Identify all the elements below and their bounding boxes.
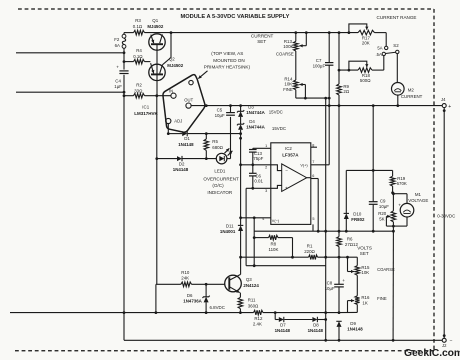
wire R15-R16 link	[356, 275, 358, 296]
wire R19 to M1	[393, 193, 407, 195]
wire left bus	[123, 48, 125, 69]
wire R20 bottom	[392, 222, 394, 231]
wire R2 row	[124, 95, 134, 97]
svg-text:LM317HVK: LM317HVK	[134, 111, 158, 116]
resistor R9	[337, 84, 342, 95]
svg-text:−: −	[285, 168, 288, 173]
svg-text:670K: 670K	[397, 181, 407, 186]
junction R20 top	[392, 192, 395, 195]
fuse F2	[122, 34, 126, 38]
svg-text:C8: C8	[327, 281, 333, 286]
junction	[392, 339, 395, 342]
svg-text:GeekIC.com: GeekIC.com	[404, 348, 460, 359]
junction	[372, 169, 375, 172]
svg-text:680Ω: 680Ω	[212, 145, 223, 150]
resistor R19	[390, 176, 395, 186]
wire R15 wiper drop	[347, 257, 349, 271]
svg-text:10μF: 10μF	[325, 286, 335, 291]
svg-text:1K: 1K	[362, 300, 367, 305]
zener D4	[238, 124, 243, 130]
capacitor C8	[334, 283, 344, 285]
transistor Q2	[149, 64, 165, 80]
junction R5 top	[205, 132, 208, 135]
svg-text:15VDC: 15VDC	[272, 126, 286, 131]
junction D6 top	[205, 283, 208, 286]
svg-text:20K: 20K	[362, 41, 370, 46]
svg-text:.5A: .5A	[376, 52, 382, 57]
junction R17 bracket	[348, 31, 351, 34]
wire pin7 V+ row	[311, 164, 329, 166]
wire current-set row	[296, 97, 329, 99]
junction base bus	[155, 94, 158, 97]
svg-text:360Ω: 360Ω	[248, 303, 259, 308]
wire R16 wiper drop	[347, 301, 349, 313]
wire bottom return bus	[10, 312, 254, 314]
wire R13 top	[295, 33, 297, 42]
wire R8 row	[254, 237, 268, 239]
junction on output bus	[328, 104, 331, 107]
IC1 pin OUT	[186, 103, 191, 108]
resistor R5	[204, 139, 209, 150]
svg-text:R11: R11	[248, 297, 256, 302]
resistor R1	[309, 255, 318, 260]
svg-text:1N4148: 1N4148	[308, 328, 324, 333]
svg-text:Q2: Q2	[169, 57, 175, 62]
wire top rail right end	[375, 32, 387, 34]
wire D1 row	[168, 133, 182, 135]
meter M2	[392, 83, 405, 96]
wire D7 branch drop	[274, 313, 276, 320]
wire reference bus	[240, 106, 242, 112]
junction pin6	[317, 230, 320, 233]
svg-text:−: −	[450, 338, 453, 344]
svg-text:LF357A: LF357A	[282, 152, 299, 157]
svg-text:IC1: IC1	[142, 105, 149, 110]
svg-text:0-30VDC: 0-30VDC	[437, 214, 455, 219]
wire base bus long vertical	[156, 159, 158, 285]
wire D6	[205, 284, 207, 297]
junction R6 top	[338, 230, 341, 233]
wire R15 top	[356, 257, 358, 265]
diode D7	[279, 317, 284, 322]
svg-text:500Ω: 500Ω	[360, 78, 371, 83]
svg-text:2.4K: 2.4K	[253, 322, 262, 327]
svg-text:R1: R1	[307, 243, 313, 248]
wire R1 row	[241, 256, 309, 258]
junction	[205, 311, 208, 314]
potentiometer R13	[294, 41, 299, 51]
resistor R10	[181, 282, 192, 287]
svg-text:OUT: OUT	[184, 98, 193, 103]
R13 wiper arrow	[299, 45, 306, 47]
R20 wiper arrow	[386, 215, 390, 217]
svg-text:INDICATOR: INDICATOR	[207, 190, 233, 195]
wire pin6 drop	[317, 179, 319, 232]
capacitor C6	[249, 172, 257, 174]
svg-text:6A: 6A	[115, 43, 120, 48]
junction	[338, 339, 341, 342]
svg-text:C4: C4	[115, 79, 121, 84]
op-amp inner input jogs	[271, 165, 282, 171]
svg-text:OVERCURRENT: OVERCURRENT	[203, 177, 239, 182]
svg-text:M2: M2	[408, 87, 415, 92]
wire R20 wiper bracket	[385, 216, 387, 226]
svg-text:15VDC: 15VDC	[269, 109, 283, 114]
svg-text:1N4148: 1N4148	[275, 328, 291, 333]
junction C7 top	[328, 31, 331, 34]
wire top rail	[124, 32, 134, 34]
junction pin2 row	[239, 163, 242, 166]
diode D8	[312, 317, 317, 322]
wire R9 column	[338, 33, 340, 84]
svg-text:CURRENT: CURRENT	[401, 94, 423, 99]
svg-text:10μF: 10μF	[379, 204, 389, 209]
junction rail to Q2 collector	[170, 31, 173, 34]
wire C8 bottom	[338, 287, 340, 313]
wire R18 wiper bracket	[349, 61, 367, 70]
svg-text:0.01: 0.01	[254, 179, 263, 184]
junction R8 row	[253, 236, 256, 239]
wire R19 top	[392, 170, 394, 176]
module dashed border bottom	[15, 350, 434, 352]
junction	[123, 94, 126, 97]
wire D10 column	[345, 170, 347, 213]
resistor R2	[134, 93, 145, 98]
svg-text:100μF: 100μF	[313, 64, 326, 69]
junction mega vertical	[324, 230, 327, 233]
junction	[251, 187, 254, 190]
wire ground rail	[124, 339, 442, 341]
svg-text:MJ4502: MJ4502	[167, 63, 183, 68]
wire pin4 drop	[253, 218, 255, 238]
wire input+ from left edge	[16, 52, 123, 54]
junction	[123, 51, 126, 54]
wire pin3 row	[246, 187, 271, 189]
svg-text:FR802: FR802	[351, 217, 365, 222]
wire R6 top	[338, 231, 340, 236]
wire left bus top	[123, 33, 125, 35]
junction	[123, 311, 126, 314]
wire pin8 stub	[311, 146, 317, 148]
junction on reference bus	[239, 132, 242, 135]
wire ADJ down	[167, 124, 169, 134]
svg-text:CURRENT RANGE: CURRENT RANGE	[377, 15, 417, 20]
wire base bus down to D2 row	[156, 96, 158, 159]
wire C9 column	[372, 106, 374, 202]
svg-text:Q1: Q1	[152, 18, 158, 23]
regulator IC1 LM317HVK TO-3 outline	[163, 75, 205, 133]
capacitor C4	[119, 70, 128, 72]
junction below J4	[443, 109, 446, 112]
svg-text:+: +	[342, 278, 345, 283]
wire R16 bottom	[356, 305, 358, 313]
svg-text:+: +	[448, 104, 451, 110]
potentiometer R14	[294, 80, 299, 90]
wire long vertical current-set to ground	[325, 98, 327, 340]
module dashed border right	[433, 9, 435, 351]
resistor R3	[134, 30, 145, 35]
junction	[324, 256, 327, 259]
transistor Q1	[149, 34, 165, 50]
wire J4 to J2 right edge	[443, 108, 445, 339]
junction C7 column	[328, 97, 331, 100]
wire output bus	[191, 105, 442, 107]
svg-text:5: 5	[312, 217, 314, 221]
svg-text:6.8VDC: 6.8VDC	[210, 305, 225, 310]
R16 wiper arrow	[348, 300, 355, 302]
junction D10 bottom	[345, 230, 348, 233]
capacitor C13	[249, 149, 257, 151]
junction	[338, 256, 341, 259]
svg-text:24K: 24K	[181, 276, 189, 281]
wire input- from left edge	[16, 91, 123, 93]
svg-text:MODULE A 5-30VDC VARIABLE SUPP: MODULE A 5-30VDC VARIABLE SUPPLY	[181, 14, 290, 20]
svg-text:C5: C5	[217, 108, 223, 113]
junction R13 wiper	[305, 31, 308, 34]
wire pin2 row	[241, 164, 271, 166]
connector J4	[442, 104, 446, 108]
junction	[338, 311, 341, 314]
junction	[324, 339, 327, 342]
resistor R4	[134, 59, 145, 64]
junction	[324, 311, 327, 314]
wire V+ riser	[328, 106, 330, 165]
junction R15 wiper	[346, 256, 349, 259]
junction D7 branch	[274, 311, 277, 314]
op-amp IC2 LF357A box	[271, 143, 311, 225]
svg-text:1N4744A: 1N4744A	[246, 110, 265, 115]
svg-text:220Ω: 220Ω	[304, 249, 315, 254]
wire bus under op-amp	[254, 230, 393, 232]
svg-text:110K: 110K	[269, 247, 279, 252]
wire S2 pole to M2	[396, 54, 398, 83]
wire C5 bottom riser	[230, 117, 232, 159]
wire pin4 column to loop	[253, 238, 255, 266]
svg-text:0.1Ω: 0.1Ω	[133, 54, 143, 59]
junction	[239, 311, 242, 314]
svg-text:D6: D6	[187, 293, 193, 298]
wire R20 column to ground rail	[392, 231, 394, 340]
connector J2	[442, 338, 446, 342]
junction R13 top	[294, 31, 297, 34]
junction	[155, 311, 158, 314]
junction on output bus	[229, 104, 232, 107]
potentiometer R15	[355, 266, 360, 276]
wire top rail middle	[145, 32, 359, 34]
junction	[291, 256, 294, 259]
junction R5 bottom	[205, 157, 208, 160]
svg-text:1N4001: 1N4001	[220, 229, 236, 234]
svg-text:R8: R8	[271, 241, 277, 246]
svg-text:1μF: 1μF	[114, 84, 122, 89]
svg-text:COARSE: COARSE	[377, 267, 395, 272]
wire to bottom bus	[155, 284, 157, 312]
svg-text:2N4124: 2N4124	[243, 283, 259, 288]
wire R13-R14 link	[295, 51, 297, 80]
wire S2 .5A to R18 row	[383, 56, 385, 71]
svg-text:D8: D8	[313, 322, 319, 327]
svg-text:75pF: 75pF	[253, 156, 263, 161]
svg-text:F2: F2	[114, 37, 120, 42]
svg-text:1N4148: 1N4148	[178, 142, 194, 147]
capacitor C5	[230, 106, 232, 113]
svg-text:MJ4502: MJ4502	[147, 24, 163, 29]
svg-text:MOUNTED ON: MOUNTED ON	[213, 58, 244, 63]
svg-text:D2: D2	[179, 161, 185, 166]
IC1 pin ADJ	[166, 118, 171, 123]
svg-text:V(−): V(−)	[272, 219, 280, 223]
svg-text:6: 6	[312, 174, 314, 178]
potentiometer R20	[391, 211, 396, 222]
svg-text:M1: M1	[415, 192, 422, 197]
svg-text:PRIMARY HEATSINK): PRIMARY HEATSINK)	[204, 64, 251, 69]
resistor R11	[238, 297, 243, 308]
junction on output bus	[396, 104, 399, 107]
svg-text:IC2: IC2	[285, 146, 292, 151]
junction above J2	[443, 334, 446, 337]
svg-text:R3: R3	[135, 18, 141, 23]
svg-text:Q3: Q3	[246, 277, 252, 282]
svg-text:2: 2	[265, 166, 267, 170]
junction on output bus	[205, 104, 208, 107]
junction on output bus	[239, 104, 242, 107]
diode D1	[182, 131, 187, 136]
junction	[391, 191, 394, 194]
wire pin3 down to loop	[245, 188, 247, 265]
diode D9	[337, 321, 342, 327]
wire R8 drop to R1 row	[292, 238, 294, 258]
wire D2 row	[157, 158, 177, 160]
svg-text:SET: SET	[257, 39, 266, 44]
wire R17 wiper bracket	[349, 24, 367, 33]
junction R1 row	[239, 256, 242, 259]
junction C13/C6	[251, 163, 254, 166]
junction C9 bottom	[372, 230, 375, 233]
svg-text:100K: 100K	[283, 44, 293, 49]
wire R9 column continues to lower bus	[338, 106, 340, 232]
wire M2 to output bus	[397, 95, 399, 106]
svg-text:R12: R12	[254, 316, 263, 321]
wire pin1 stub	[253, 147, 271, 149]
transistor Q3 2N4124	[225, 275, 242, 292]
wire C7	[328, 33, 330, 63]
wire pin5 stub	[312, 224, 314, 231]
svg-text:C9: C9	[380, 198, 386, 203]
wire R20 top link	[392, 194, 394, 211]
svg-text:R6: R6	[347, 237, 353, 242]
wire pin6 output	[311, 178, 318, 180]
svg-text:1: 1	[265, 144, 267, 148]
potentiometer R18	[358, 68, 372, 73]
junction R18 row	[338, 69, 341, 72]
meter M1	[400, 203, 414, 217]
svg-text:D4: D4	[249, 119, 255, 124]
junction	[123, 60, 126, 63]
svg-text:IN: IN	[169, 88, 173, 93]
svg-text:+: +	[398, 203, 401, 208]
svg-text:R16: R16	[361, 295, 370, 300]
svg-text:0.1Ω: 0.1Ω	[133, 24, 143, 29]
resistor R6	[337, 237, 342, 247]
svg-text:33Ω: 33Ω	[134, 88, 143, 93]
svg-text:FINE: FINE	[377, 296, 387, 301]
wire R19 feed row	[346, 169, 392, 171]
wire Q2 collector to riser	[162, 58, 171, 65]
resistor R8	[269, 235, 279, 240]
zener D6	[204, 297, 209, 303]
svg-text:D9: D9	[350, 321, 356, 326]
svg-text:10K: 10K	[361, 270, 369, 275]
svg-text:R10: R10	[181, 270, 190, 275]
R14 wiper arrow	[299, 84, 305, 86]
wire D11 to Q3 collector	[240, 231, 242, 274]
svg-text:3: 3	[265, 189, 267, 193]
resistor R17	[358, 30, 375, 35]
svg-text:C7: C7	[316, 58, 322, 63]
junction on mega vertical	[324, 318, 327, 321]
svg-text:1N4148: 1N4148	[347, 326, 363, 331]
svg-text:+: +	[116, 64, 119, 69]
svg-text:5K: 5K	[379, 216, 384, 221]
svg-text:R5: R5	[212, 139, 218, 144]
svg-text:D1: D1	[184, 136, 190, 141]
potentiometer R16	[355, 296, 360, 305]
wire R4 row	[124, 61, 134, 63]
wire R14 bottom	[295, 90, 297, 98]
svg-text:+: +	[285, 186, 288, 191]
wire Q1 base down through Q2 base to R2 row	[156, 44, 158, 95]
wire R18 row	[339, 69, 358, 71]
svg-text:7: 7	[312, 160, 314, 164]
svg-text:COARSE: COARSE	[276, 52, 294, 57]
zener D3	[238, 111, 243, 117]
wire C8 top	[338, 257, 340, 284]
arrow note to IC1	[198, 71, 207, 79]
junction pin4 row	[239, 216, 242, 219]
svg-text:D7: D7	[280, 322, 286, 327]
capacitor C9	[369, 201, 378, 203]
wire Q3 base row	[156, 283, 181, 285]
svg-text:D10: D10	[353, 212, 362, 217]
svg-text:R2: R2	[136, 83, 142, 88]
svg-text:1N4736A: 1N4736A	[183, 299, 202, 304]
svg-text:(TOP VIEW, AS: (TOP VIEW, AS	[211, 51, 243, 56]
junction	[123, 91, 126, 94]
svg-text:J4: J4	[441, 97, 446, 102]
svg-text:R15: R15	[361, 265, 370, 270]
LED1 overcurrent indicator	[216, 153, 227, 164]
junction R9 top	[338, 31, 341, 34]
switch S2	[385, 46, 388, 49]
svg-text:1N4148: 1N4148	[173, 167, 189, 172]
svg-text:VOLTAGE: VOLTAGE	[408, 198, 428, 203]
resistor R12	[254, 310, 264, 315]
wire left bus down to ground rail	[123, 75, 125, 341]
junction	[253, 264, 256, 267]
junction	[304, 97, 307, 100]
wire feedback loop	[246, 265, 326, 267]
svg-text:FINE: FINE	[283, 87, 293, 92]
junction ADJ/D1 row	[167, 132, 170, 135]
wire pin4 row	[241, 217, 271, 219]
svg-text:R4: R4	[136, 48, 142, 53]
svg-text:10μF: 10μF	[215, 113, 225, 118]
junction on output bus	[338, 104, 341, 107]
svg-text:VOLTS: VOLTS	[357, 246, 372, 251]
svg-text:5A: 5A	[377, 45, 382, 50]
wire Q3 emitter	[239, 293, 241, 298]
junction R20 bottom	[392, 230, 395, 233]
